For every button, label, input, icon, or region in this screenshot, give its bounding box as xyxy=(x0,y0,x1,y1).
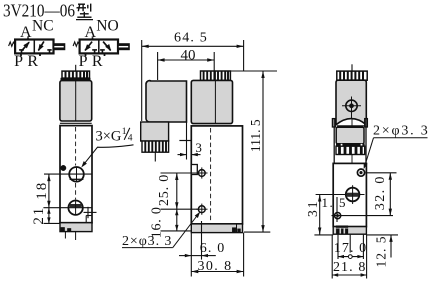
dim 32.0 top reference xyxy=(366,172,397,174)
left view port hole 2 centerline xyxy=(43,207,91,209)
right view connector body with dome xyxy=(336,80,366,125)
port A stub NO xyxy=(92,37,94,39)
dim 6.0 line and arrows xyxy=(179,255,191,257)
dim 12.5 line xyxy=(390,235,392,258)
NO left box blocked port T xyxy=(92,49,97,51)
middle view pilot tube tick xyxy=(179,140,190,142)
right view valve body xyxy=(333,163,366,226)
right view override ribs band xyxy=(336,146,365,154)
right view connector ribs xyxy=(337,71,367,80)
NO right box blocked port T xyxy=(100,49,105,51)
svg-text:18: 18 xyxy=(34,181,50,200)
dim 30.8 line xyxy=(191,271,243,273)
right view flange tab right xyxy=(365,119,368,127)
dim 17.0 line xyxy=(338,256,363,258)
NC right box flow arrow xyxy=(38,41,44,50)
middle view port boss on left edge xyxy=(191,165,197,175)
svg-text:4: 4 xyxy=(128,134,133,144)
middle view connector ribs top xyxy=(201,71,231,80)
title CJK glyph xing (型) drawn xyxy=(77,4,92,18)
middle view manual override ribs xyxy=(142,141,169,152)
svg-text:R: R xyxy=(92,53,103,70)
right view bottom plate xyxy=(333,227,366,235)
valve NC divider xyxy=(33,40,35,54)
port P stub NO xyxy=(85,53,87,56)
left view bottom extension stubs xyxy=(64,232,66,239)
svg-text:A: A xyxy=(85,24,97,41)
svg-text:40: 40 xyxy=(181,48,196,64)
right view centerline stub xyxy=(351,64,353,71)
svg-text:64. 5: 64. 5 xyxy=(174,30,208,45)
left view port hole 1 (G1/4) xyxy=(69,167,84,182)
left view adapter plate lines xyxy=(60,122,92,124)
left view right edge step xyxy=(86,215,92,217)
right view port circle centerline horizontal xyxy=(316,194,365,196)
right view hole bottom vertical line xyxy=(336,197,338,222)
right view mounting hole bottom (phi3.3) xyxy=(335,213,341,219)
dim 12.5 top reference xyxy=(366,234,398,236)
svg-text:111. 5: 111. 5 xyxy=(248,119,263,152)
left view centerline stub above connector xyxy=(75,65,77,71)
label 3xG1/4 leader xyxy=(84,145,133,164)
NC left box blocked port T xyxy=(19,49,24,51)
valve NO divider xyxy=(98,40,100,54)
label 2x phi 3.3 (right) leader xyxy=(374,137,428,139)
dim 64.5 left extension line xyxy=(141,40,143,121)
solenoid actuator NO xyxy=(118,44,129,49)
right view dome base line xyxy=(337,125,366,127)
dim 31 bottom reference xyxy=(314,234,333,236)
left view connector base band xyxy=(61,78,90,81)
right view coil bottom band xyxy=(336,144,364,146)
right view vertical centerline xyxy=(351,80,353,233)
port R stub NC xyxy=(39,53,41,56)
svg-text:R: R xyxy=(27,53,38,70)
title underline xyxy=(76,19,93,21)
dim 31 line xyxy=(319,195,321,235)
svg-text:P: P xyxy=(79,53,88,70)
middle view dashed centerline xyxy=(210,128,212,222)
dim 3 line and arrows xyxy=(178,154,187,156)
dim 6.0 left extension xyxy=(190,233,192,259)
svg-text:6. 0: 6. 0 xyxy=(200,241,226,256)
left view side screw dot xyxy=(61,165,66,170)
middle view bottom plate xyxy=(191,224,242,233)
valve symbol body NO xyxy=(80,40,118,54)
dim 16.0 bottom reference xyxy=(161,230,192,232)
left view valve body xyxy=(60,126,92,223)
left view connector ribs xyxy=(62,71,90,78)
svg-text:17. 0: 17. 0 xyxy=(334,241,368,256)
svg-text:30. 8: 30. 8 xyxy=(198,259,233,274)
NO right box flow arrow xyxy=(103,42,111,51)
middle view connector centerline xyxy=(214,71,216,124)
middle view connector body xyxy=(191,80,232,123)
left view port hole 2 (G1/4) xyxy=(68,201,82,215)
dimension 21 line xyxy=(48,208,50,224)
svg-text:2×φ3. 3: 2×φ3. 3 xyxy=(373,124,429,139)
svg-text:1. 5: 1. 5 xyxy=(321,195,347,210)
dim 17.0 right extension stub xyxy=(362,235,364,259)
right view connector screw circle xyxy=(346,100,357,111)
svg-text:3: 3 xyxy=(195,140,202,155)
middle view mounting hole 2 xyxy=(198,206,205,213)
dim 111.5 bottom reference xyxy=(244,231,270,233)
svg-text:3×G: 3×G xyxy=(96,129,122,145)
right view hole bottom centerline xyxy=(332,215,394,217)
svg-text:NO: NO xyxy=(96,18,118,35)
dim 32.0 line xyxy=(389,173,391,216)
svg-text:25. 0: 25. 0 xyxy=(157,174,172,206)
left view coil centerline xyxy=(75,81,77,121)
dim 25.0 top reference xyxy=(161,172,199,174)
middle view bottom bracket marks xyxy=(232,228,236,233)
port P stub NC xyxy=(20,53,22,56)
dim 3 extension line (coil right face) xyxy=(186,122,188,160)
right view bottom bracket marks xyxy=(336,226,348,228)
dim 21.8 line xyxy=(332,274,366,276)
left view bottom plate xyxy=(60,223,92,232)
dim 21.8 right extension xyxy=(366,235,368,279)
left view pilot cross mark xyxy=(84,211,97,213)
svg-text:21: 21 xyxy=(31,206,47,225)
spring NO xyxy=(73,42,80,46)
NC right box blocked port T xyxy=(47,49,51,51)
NC left box flow arrow xyxy=(22,42,29,51)
dim 40 line xyxy=(158,59,215,61)
left view dashed centerline xyxy=(75,127,77,166)
svg-text:32. 0: 32. 0 xyxy=(373,175,388,210)
dim 30.8 left extension xyxy=(190,259,192,277)
middle view override centerline stub xyxy=(154,152,156,161)
label 2x phi 3.3 leader xyxy=(122,247,173,249)
dim 25.0 line xyxy=(176,173,178,209)
dim 25.0 bottom reference xyxy=(161,208,199,210)
svg-text:12. 5: 12. 5 xyxy=(374,236,389,268)
right view frame sides xyxy=(333,119,335,163)
dim 16.0 line xyxy=(176,209,178,231)
port A stub NC xyxy=(27,37,29,39)
right view coil block xyxy=(336,127,364,144)
dim 21.8 left extension xyxy=(331,235,333,279)
port R stub NO xyxy=(104,53,106,56)
right view port circle xyxy=(346,188,360,202)
dim 64.5 right extension line xyxy=(243,40,245,72)
dim 111.5 line xyxy=(262,71,264,232)
dim 17.0 left extension stub xyxy=(337,235,339,259)
svg-text:A: A xyxy=(20,24,32,41)
dim 40 right extension line xyxy=(213,52,215,71)
middle view armature block lower-left xyxy=(141,122,169,141)
middle view solenoid coil xyxy=(146,81,187,122)
dim 30.8 right extension xyxy=(243,233,245,277)
middle view mounting hole 1 xyxy=(198,170,205,177)
valve symbol body NC xyxy=(15,40,53,54)
svg-text:31: 31 xyxy=(305,199,320,217)
svg-text:P: P xyxy=(14,53,23,70)
svg-text:21. 8: 21. 8 xyxy=(333,260,367,275)
solenoid actuator NC xyxy=(54,44,65,49)
spring NC xyxy=(9,42,16,46)
middle view valve body xyxy=(191,126,242,224)
left view solenoid coil body xyxy=(60,81,92,121)
dim 6.0 right extension xyxy=(201,221,203,260)
dimension 18 line xyxy=(48,174,50,208)
dim 40 left extension line xyxy=(157,52,159,80)
svg-text:2×φ3. 3: 2×φ3. 3 xyxy=(122,234,172,249)
left view bottom bracket marks xyxy=(61,227,65,231)
svg-text:NC: NC xyxy=(32,18,54,35)
right view flange tab left xyxy=(332,119,335,127)
right view mounting hole top (phi3.3) xyxy=(357,169,364,176)
dimension 21 bottom reference xyxy=(44,222,61,224)
dim 64.5 line xyxy=(142,45,244,47)
left view port hole 1 centerline xyxy=(44,173,92,175)
dim 17.0 mid extension stub xyxy=(349,235,351,253)
dim 111.5 top reference xyxy=(231,70,278,72)
NO left box flow arrow xyxy=(85,42,92,51)
